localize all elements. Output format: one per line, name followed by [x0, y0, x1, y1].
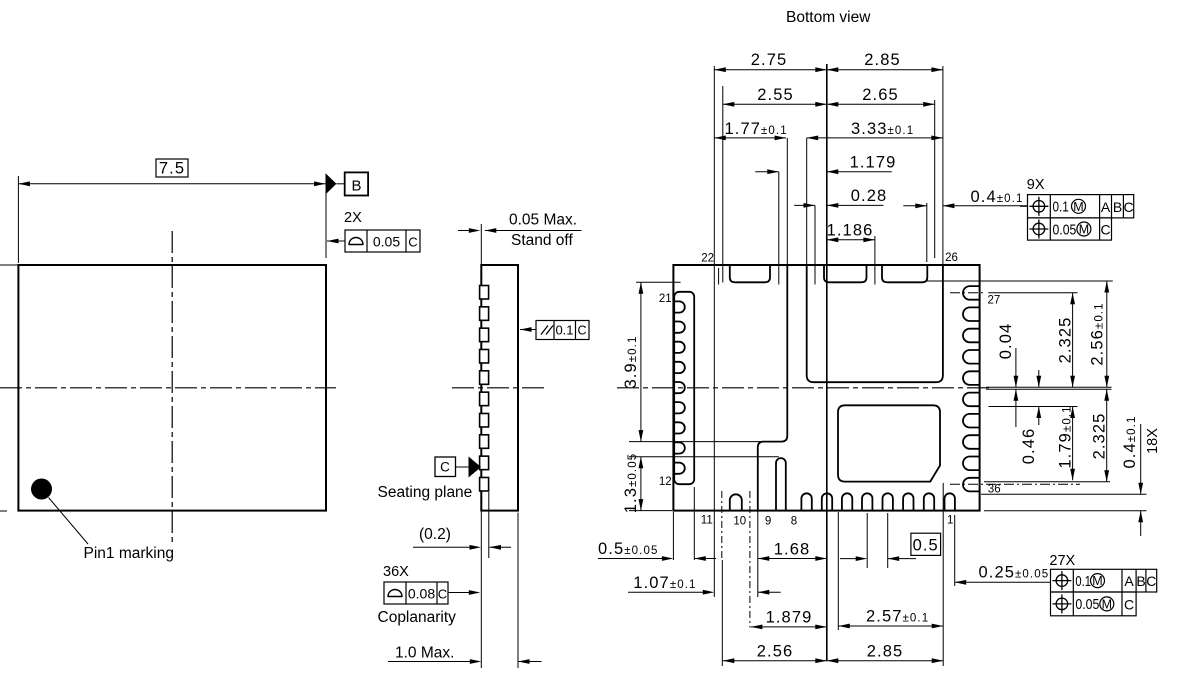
svg-text:0.05 Max.: 0.05 Max.: [509, 212, 577, 229]
svg-text:A: A: [1124, 573, 1134, 589]
svg-text:Coplanarity: Coplanarity: [378, 609, 457, 626]
svg-text:0.05: 0.05: [1075, 596, 1099, 613]
svg-text:(0.2): (0.2): [419, 526, 451, 543]
svg-text:2.85: 2.85: [864, 51, 901, 69]
svg-text:0.05: 0.05: [373, 234, 400, 250]
svg-text:C: C: [1146, 573, 1156, 589]
svg-text:0.5: 0.5: [913, 537, 939, 555]
svg-text:1.68: 1.68: [774, 541, 811, 559]
svg-text:22: 22: [701, 253, 714, 265]
svg-text:B: B: [1113, 199, 1122, 215]
svg-text:21: 21: [659, 293, 672, 305]
svg-text:Pin1 marking: Pin1 marking: [84, 545, 174, 562]
svg-text:Stand off: Stand off: [511, 232, 573, 249]
svg-text:12: 12: [659, 476, 672, 488]
svg-text:0.1: 0.1: [1075, 573, 1091, 590]
svg-text:2.56: 2.56: [757, 642, 794, 660]
svg-text:11: 11: [701, 515, 713, 527]
svg-text:C: C: [408, 235, 417, 250]
svg-text:1.879: 1.879: [766, 609, 813, 627]
svg-text:C: C: [440, 460, 450, 475]
svg-text:B: B: [1136, 573, 1145, 589]
svg-text:2.85: 2.85: [867, 642, 904, 660]
svg-text:9: 9: [765, 515, 771, 527]
svg-text:C: C: [438, 587, 447, 602]
svg-text:C: C: [1124, 199, 1134, 215]
svg-text:Seating plane: Seating plane: [378, 484, 473, 501]
svg-text:C: C: [1100, 222, 1110, 238]
svg-text:27: 27: [988, 294, 1001, 306]
svg-text:M: M: [1079, 223, 1089, 237]
svg-text:2.65: 2.65: [862, 86, 899, 104]
svg-text:2.325: 2.325: [1091, 413, 1109, 460]
svg-text:B: B: [351, 178, 361, 195]
svg-text:0.08: 0.08: [408, 586, 435, 602]
svg-text:10: 10: [733, 515, 746, 527]
svg-text:2.325: 2.325: [1056, 317, 1074, 364]
svg-text:0.28: 0.28: [851, 187, 888, 205]
svg-text:C: C: [1124, 597, 1134, 613]
svg-text:1.0 Max.: 1.0 Max.: [395, 645, 454, 662]
svg-text:9X: 9X: [1027, 177, 1045, 193]
svg-text:0.05: 0.05: [1053, 221, 1077, 238]
svg-text:8: 8: [791, 515, 797, 527]
svg-text:1.186: 1.186: [827, 222, 874, 240]
svg-text:18X: 18X: [1145, 428, 1161, 454]
svg-text:36X: 36X: [383, 564, 409, 580]
svg-text:0.1: 0.1: [555, 323, 573, 338]
svg-text:27X: 27X: [1049, 553, 1075, 569]
svg-text:0.46: 0.46: [1020, 428, 1038, 465]
svg-text:M: M: [1073, 200, 1083, 214]
svg-text:36: 36: [988, 484, 1001, 496]
svg-text:A: A: [1101, 199, 1111, 215]
svg-text:C: C: [577, 324, 586, 338]
svg-text:Bottom view: Bottom view: [786, 9, 871, 26]
svg-text:2.75: 2.75: [751, 51, 788, 69]
svg-text:M: M: [1092, 574, 1102, 588]
svg-text:1.179: 1.179: [850, 154, 897, 172]
svg-text:2X: 2X: [344, 210, 362, 226]
svg-text:7.5: 7.5: [159, 160, 185, 178]
svg-text:0.04: 0.04: [997, 323, 1015, 360]
svg-text:M: M: [1102, 597, 1112, 611]
svg-text:2.55: 2.55: [757, 86, 794, 104]
svg-text:26: 26: [945, 252, 958, 264]
svg-text:0.1: 0.1: [1053, 199, 1069, 216]
svg-text:1: 1: [947, 515, 953, 527]
